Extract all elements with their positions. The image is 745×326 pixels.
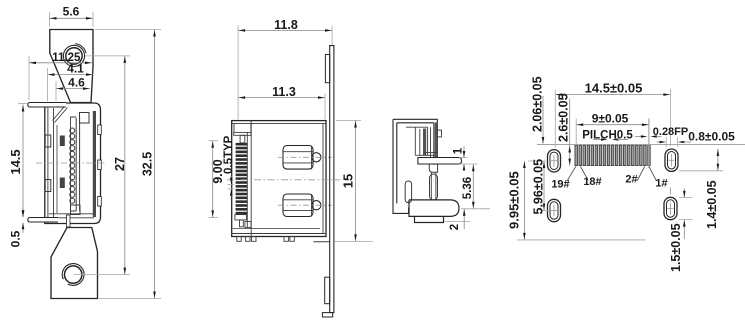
view A top solder tab (28, 103, 66, 108)
dim 27 ext bottom (leader from hole) (74, 274, 131, 276)
label 18# leader (581, 167, 589, 181)
view A left wall latch window lower (45, 180, 51, 192)
svg-text:19#: 19# (551, 179, 569, 191)
label 19# leader (567, 167, 576, 182)
dim 0.8±0.05 arrows (657, 141, 661, 143)
svg-text:1.5±0.05: 1.5±0.05 (669, 223, 683, 272)
view A shell outline (45, 103, 101, 224)
dim 4.1 arrows (48, 73, 55, 76)
dim 0.5TYP arrows (230, 176, 232, 178)
dim 15 ext lines (336, 120, 361, 122)
dim 9.00 arrows (211, 141, 214, 148)
dim 9.00 ext ticks (209, 140, 219, 142)
view A bottom bracket screw hole (65, 266, 82, 283)
dim 2.06 line (542, 96, 544, 144)
svg-text:5.36: 5.36 (462, 177, 474, 199)
svg-text:11.3: 11.3 (272, 85, 296, 99)
dim 0.5 arrows (22, 207, 24, 217)
dim 0.5TYP ticks (228, 183, 235, 185)
footprint reference line bottom (517, 239, 646, 241)
dim 5.36 line (472, 164, 474, 209)
dim 5.36 arrows (472, 165, 475, 172)
svg-text:1#: 1# (655, 178, 667, 190)
view B flange bend line (314, 241, 330, 243)
view A top-right window (80, 113, 90, 124)
label 1# leader (649, 167, 657, 182)
svg-text:0.8±0.05: 0.8±0.05 (688, 130, 735, 144)
dim 4.1 line (48, 74, 94, 76)
svg-text:14.5: 14.5 (8, 149, 23, 174)
svg-text:2#: 2# (625, 173, 637, 185)
dim 1.5 marks (683, 189, 685, 198)
svg-text:32.5: 32.5 (141, 152, 155, 176)
view A shell bend diagonal (53, 105, 68, 123)
dim 5.6 arrows (50, 17, 57, 20)
svg-text:5.96±0.05: 5.96±0.05 (532, 159, 546, 215)
dim 27 arrows (124, 56, 127, 63)
dim 0.28FP arrows (635, 136, 641, 138)
view A top bracket screw hole (inner + outer circle + thread arc) (66, 48, 82, 64)
footprint oval pad upper-right (665, 149, 678, 171)
dim 14.5 arrows (22, 105, 25, 112)
label 2# leader (637, 167, 645, 182)
footprint oval pad upper-left (548, 150, 561, 172)
dim 4.6 arrows (57, 87, 64, 90)
view B flange lower tab (325, 277, 330, 304)
dim 9.95 arrows (523, 162, 526, 169)
dim 1.4 line (717, 149, 719, 171)
view A center leg (67, 215, 71, 227)
view A inner contact block lower (60, 178, 65, 189)
dim 5.96 arrows (543, 162, 546, 169)
svg-text:15: 15 (341, 174, 356, 188)
dim 9.95 line (523, 161, 525, 240)
svg-text:9.95±0.05: 9.95±0.05 (507, 171, 522, 229)
view B body outline (232, 121, 326, 237)
view A shell inner left wall (47, 103, 49, 224)
dim 32.5 line (154, 30, 156, 299)
dim 14.5 line (22, 105, 24, 218)
dim 5.6 line (50, 17, 94, 19)
view A left wall latch window upper (45, 135, 51, 147)
svg-text:0.5: 0.5 (9, 230, 23, 247)
svg-text:1.4±0.05: 1.4±0.05 (705, 180, 719, 229)
svg-text:4.1: 4.1 (67, 62, 84, 76)
view B comb top cap (234, 132, 252, 135)
dim 5.96 line (543, 161, 545, 211)
footprint oval pad lower-left (548, 199, 561, 221)
dim 14.5 ext ticks (18, 103, 27, 105)
view A shell inner bottom (49, 217, 94, 219)
dim 4.6 ext line (55, 81, 57, 101)
dim 14.5±0.05 line (555, 94, 670, 96)
view A bottom mounting bracket outline (51, 228, 98, 299)
dim 11.25 line (29, 62, 92, 64)
view B lower latch centerline (278, 204, 332, 206)
view A contact strip dimples (70, 128, 75, 133)
dim PILCH0.5 pitch arrows (593, 139, 603, 141)
svg-text:2: 2 (449, 224, 461, 230)
view B body inner lines (232, 123, 326, 125)
view A top mounting bracket outline (50, 30, 93, 103)
dim 11.8 line (238, 29, 332, 31)
dim 11.3 line (238, 97, 325, 99)
view C shell outline (393, 119, 437, 213)
view A contact strip body (75, 118, 77, 211)
dim 2.06 arrow (542, 137, 545, 144)
view C bump under leg (429, 164, 437, 172)
view B comb bottom block (235, 215, 247, 220)
view B lower latch (283, 194, 313, 217)
view C left slot (405, 181, 411, 203)
oval LR centerline tick (670, 188, 672, 195)
view A insulator wall (53, 108, 55, 218)
dim 9±0.05 line (576, 124, 649, 126)
dim 1.4 arrows (717, 149, 720, 156)
dim 11.3 arrows (239, 96, 246, 99)
view B pin teeth (19 contacts) (236, 143, 248, 146)
view A contact strip bottom block (71, 205, 81, 215)
dim 11.8 arrows (239, 29, 246, 32)
view B upper latch (283, 146, 313, 170)
dim 11.25 ext line (28, 56, 30, 100)
svg-text:0.5TYP: 0.5TYP (223, 135, 235, 174)
dim 5.36 ext (461, 208, 490, 210)
view B bottom feet tabs (237, 237, 241, 242)
svg-text:0.28FP: 0.28FP (653, 126, 688, 138)
dim 27 line (124, 56, 126, 275)
view A centerline (36, 162, 106, 164)
dim 1.5 ext lines (679, 196, 693, 198)
dim 15 line (355, 121, 357, 242)
footprint SMT pads row (19 pads) (575, 146, 578, 166)
dim 32.5 ext bottom (99, 298, 161, 300)
dim 32.5 arrows (153, 30, 156, 37)
dim 2.6 arrows (568, 146, 571, 153)
svg-text:27: 27 (113, 157, 127, 171)
dim 32.5 ext top (95, 29, 161, 31)
view A shell inner right wall (dark band) (93, 111, 96, 217)
view C right wall outer notch (437, 130, 441, 137)
view A right wall latch tabs (98, 125, 102, 135)
dim 9±0.05 arrows (577, 123, 584, 126)
dim 0.8±0.05 ext lines (665, 138, 667, 148)
svg-text:5.6: 5.6 (63, 4, 80, 18)
dim 9±0.05 ext lines (575, 119, 577, 146)
dim 1.4 ext (679, 170, 723, 172)
view B upper latch centerline (278, 156, 332, 158)
view B inner shelf line (233, 227, 320, 229)
dim 11.3 ext line (324, 94, 326, 120)
view B pin comb spine (246, 132, 248, 228)
dim 4.6 line (56, 88, 90, 90)
footprint reference line top (537, 144, 745, 146)
view B flange upper tab (325, 55, 329, 83)
dim 27 ext top (85, 55, 130, 57)
view A bottom solder tab (28, 218, 58, 223)
dim 11.25 arrows (30, 62, 37, 65)
dim 11.8 ext lines (237, 26, 239, 120)
svg-text:14.5±0.05: 14.5±0.05 (585, 81, 643, 96)
dim 2.6 line (569, 99, 571, 166)
view C upper leg (pin) (418, 158, 462, 165)
dim 5.6 extension lines (49, 12, 51, 27)
view C right slot (430, 174, 438, 200)
dim 4.1 ext line (47, 68, 49, 101)
footprint oval pad lower-right (664, 197, 677, 219)
svg-text:11.8: 11.8 (274, 18, 298, 32)
svg-text:2.06±0.05: 2.06±0.05 (531, 76, 545, 132)
svg-text:2.6±0.05: 2.6±0.05 (556, 93, 570, 142)
dim 14.5±0.05 ext lines (554, 90, 556, 147)
view B flange plate (330, 46, 334, 313)
svg-text:9±0.05: 9±0.05 (592, 112, 629, 126)
dim 9.00 line (212, 141, 214, 218)
dim 9.95 ext (519, 160, 521, 162)
dim 5.96 ext bottom (540, 210, 549, 212)
view B main centerline (227, 179, 340, 181)
dim 2 marks (445, 221, 471, 223)
svg-text:1: 1 (453, 147, 465, 154)
view C foot (409, 200, 459, 223)
dim 15 arrows (354, 121, 357, 128)
view B comb top block (233, 124, 235, 133)
dim 1 marks (459, 157, 468, 159)
view A inner contact block upper (60, 136, 65, 147)
svg-text:4.6: 4.6 (68, 75, 85, 89)
view B flange bottom foot (322, 313, 332, 317)
dim 14.5±0.05 arrows (556, 93, 563, 96)
view C top-right window lines (414, 127, 416, 155)
svg-text:18#: 18# (583, 176, 601, 188)
